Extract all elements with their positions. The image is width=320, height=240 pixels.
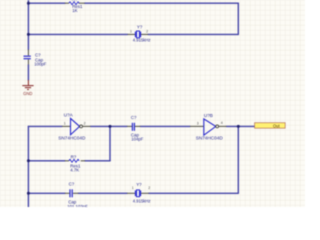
svg-text:U?A: U?A bbox=[64, 113, 74, 118]
svg-text:3: 3 bbox=[197, 121, 199, 125]
capacitor C1 plates bbox=[24, 56, 31, 59]
inverter U2B labels bbox=[196, 113, 224, 141]
wire top horizontal right segment bbox=[85, 2, 239, 4]
svg-text:2: 2 bbox=[146, 30, 148, 34]
wire R2 row left bbox=[28, 160, 64, 162]
capacitor C1 labels bbox=[34, 53, 47, 67]
wire crystal row right bbox=[148, 33, 238, 35]
svg-text:4.7K: 4.7K bbox=[70, 167, 79, 172]
resistor R2 labels bbox=[70, 155, 81, 173]
inverter U2B bubble bbox=[216, 125, 219, 128]
wire U2A input bbox=[28, 125, 62, 127]
inverter U2A bubble bbox=[80, 125, 83, 128]
svg-text:Y?: Y? bbox=[136, 182, 142, 187]
wire U2B output to port bbox=[226, 125, 254, 127]
resistor R2 body zigzag bbox=[69, 159, 79, 162]
crystal Y2 labels bbox=[133, 182, 151, 203]
wire right vertical bottom bbox=[237, 126, 239, 193]
wire C1 to GND bbox=[27, 65, 29, 81]
wire right vertical top bbox=[237, 3, 239, 34]
wire left rail top (node XIN) bbox=[27, 0, 29, 50]
resistor R? (R1) body zigzag bbox=[69, 2, 79, 5]
wire left rail bottom bbox=[27, 126, 29, 207]
svg-text:R?: R? bbox=[72, 0, 78, 2]
crystal Y1 pin numbers bbox=[130, 30, 148, 34]
inverter U2B triangle bbox=[204, 119, 216, 135]
svg-text:1K: 1K bbox=[72, 8, 77, 13]
capacitor C2 labels bbox=[131, 115, 144, 142]
inverter U2A labels bbox=[58, 113, 86, 141]
svg-text:2: 2 bbox=[84, 122, 86, 126]
crystal Y2 body bbox=[135, 190, 140, 197]
svg-text:SN74HC04D: SN74HC04D bbox=[196, 135, 224, 140]
wire bottom row right bbox=[149, 192, 239, 194]
capacitor C3 pins bbox=[65, 192, 78, 194]
wire U2A output to C2 bbox=[91, 125, 128, 127]
svg-text:104pF: 104pF bbox=[131, 137, 144, 142]
inverter U2A pins bbox=[62, 125, 91, 127]
inverter U2A triangle bbox=[71, 118, 80, 134]
crystal Y1 labels bbox=[133, 25, 151, 43]
inverter U2B pins bbox=[190, 125, 226, 127]
wire R2 row right bbox=[85, 160, 110, 162]
svg-text:GND: GND bbox=[23, 91, 32, 96]
wire C2 to U2B bbox=[140, 125, 190, 127]
svg-text:U?B: U?B bbox=[204, 113, 213, 118]
junction node R2 row left bbox=[27, 159, 30, 162]
capacitor C1 pins bbox=[27, 50, 29, 65]
crystal Y2 pin numbers bbox=[132, 186, 151, 190]
capacitor C3 labels bbox=[67, 181, 88, 209]
svg-text:Y?: Y? bbox=[137, 25, 143, 30]
wire bottom row mid bbox=[78, 192, 127, 194]
svg-text:C?: C? bbox=[131, 115, 137, 120]
wire top horizontal left segment bbox=[28, 2, 64, 4]
crystal Y2 pins bbox=[127, 192, 149, 194]
junction node output row bbox=[237, 125, 240, 128]
svg-text:100pF: 100pF bbox=[34, 62, 47, 67]
resistor R2 pins bbox=[65, 160, 85, 162]
port Out bbox=[255, 123, 286, 129]
crystal Y1 body bbox=[135, 31, 140, 38]
junction node mid row feedback bbox=[109, 125, 112, 128]
junction node crystal row left bbox=[27, 33, 30, 36]
svg-text:SN74HC04D: SN74HC04D bbox=[58, 135, 86, 140]
junction node top-left bbox=[27, 2, 30, 5]
svg-text:Out: Out bbox=[273, 123, 280, 128]
inverter U2A pin numbers bbox=[64, 122, 86, 126]
resistor R1 labels Res1 / 1K bbox=[72, 0, 83, 13]
inverter U2B pin numbers bbox=[197, 121, 223, 125]
junction node bottom row left bbox=[27, 192, 30, 195]
wire crystal row left bbox=[28, 33, 127, 35]
capacitor C3 plates bbox=[70, 189, 72, 197]
crystal Y1 pins bbox=[128, 33, 149, 35]
svg-text:4.915kHz: 4.915kHz bbox=[133, 37, 151, 42]
svg-text:4.915kHz: 4.915kHz bbox=[133, 198, 151, 203]
svg-text:1: 1 bbox=[130, 30, 132, 34]
wire R2 feedback vertical bbox=[109, 126, 111, 160]
ground GND bbox=[22, 80, 33, 90]
svg-text:4: 4 bbox=[221, 121, 223, 125]
svg-text:2: 2 bbox=[148, 186, 150, 190]
svg-text:C?: C? bbox=[69, 181, 75, 186]
resistor R? (R1) pins bbox=[65, 2, 85, 4]
svg-text:1: 1 bbox=[64, 122, 66, 126]
capacitor C2 pins bbox=[127, 125, 140, 127]
svg-text:R?: R? bbox=[71, 155, 77, 160]
svg-text:101.103nF: 101.103nF bbox=[67, 204, 88, 207]
wire bottom row left bbox=[28, 192, 65, 194]
svg-text:1: 1 bbox=[132, 186, 134, 190]
capacitor C2 plates bbox=[132, 123, 134, 131]
